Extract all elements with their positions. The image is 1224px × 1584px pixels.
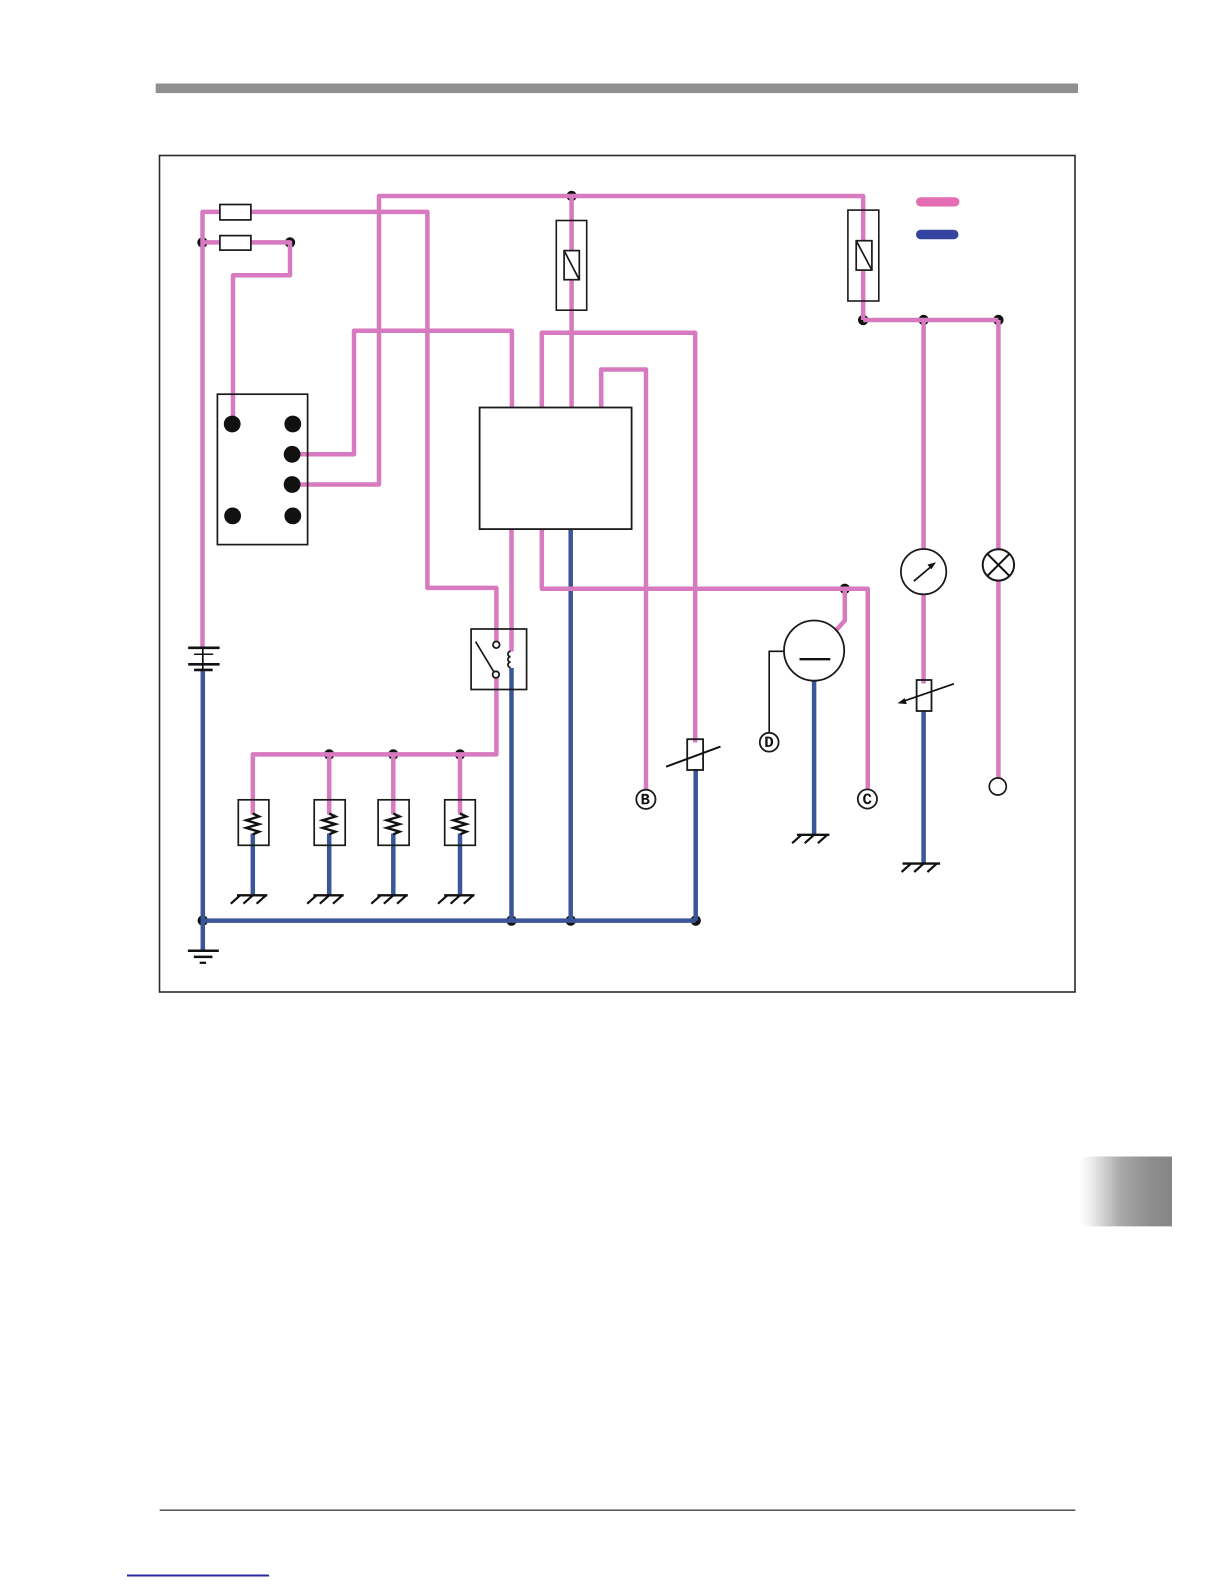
battery BT1 xyxy=(188,648,219,670)
wire tap to glow plug R2 (pink) xyxy=(327,754,332,814)
glow plug R3 box xyxy=(378,800,409,846)
node junction ground bus left xyxy=(198,915,208,925)
wire ECU pin 4 to node B (pink) xyxy=(601,370,646,790)
wire ECU pin 1 bottom to relay coil (pink) xyxy=(509,529,514,652)
relay K1 switch contact top xyxy=(493,642,500,649)
node junction lamp feed xyxy=(993,315,1003,325)
connector J1 pin 2 xyxy=(284,416,301,433)
node junction on top feed line xyxy=(566,191,576,201)
ECU control unit U1 xyxy=(480,408,632,530)
wire connector pin to ECU pin 1 (pink) xyxy=(292,331,512,455)
node junction glow plug rail R4 xyxy=(455,749,465,759)
diagram frame xyxy=(160,156,1076,993)
wire glow plug R1 to ground (blue) xyxy=(251,834,256,896)
relay K1 switch contact bottom xyxy=(493,671,500,678)
connector J1 xyxy=(217,394,307,544)
glow plug R2 box xyxy=(314,800,345,846)
wire gauge G1 to rheostat R5 (pink) xyxy=(921,594,926,683)
sensor R6 xyxy=(666,739,720,770)
ground chassis R2 xyxy=(307,895,344,903)
ground chassis R1 xyxy=(231,895,267,903)
glow plug R2 element xyxy=(323,814,336,835)
wire to lamp L1 (pink) xyxy=(996,320,1001,550)
node junction ground bus ECU xyxy=(566,915,576,925)
fuse F4 body xyxy=(848,210,879,301)
wire top line junction through fuse F3 to ECU (pink) xyxy=(569,196,574,408)
wire tap to glow plug R3 (pink) xyxy=(391,754,396,814)
fuse F1 xyxy=(220,205,251,220)
fuse F3 element xyxy=(564,251,579,280)
wire to gauge G1 (pink) xyxy=(921,320,926,549)
node D xyxy=(760,733,779,752)
glow plug R1 element xyxy=(246,814,259,835)
wire fuse F4 output rail (pink) xyxy=(863,318,998,323)
footer link underline xyxy=(127,1575,269,1577)
node junction on battery feed at fuse F2 xyxy=(197,237,207,247)
fuse F2 xyxy=(220,236,251,251)
motor M1 xyxy=(784,621,844,681)
gauge G1 xyxy=(901,549,946,594)
wire ECU pin to node C (pink) xyxy=(542,529,868,790)
glow plug R4 element xyxy=(453,814,466,835)
node fuse F2 output elbow xyxy=(285,237,295,247)
connector J1 pin 5 xyxy=(224,508,241,525)
wire sensor R6 to ground bus (blue) xyxy=(693,769,698,921)
wire lamp L1 to terminal (pink) xyxy=(996,580,1001,778)
node junction glow plug rail R3 xyxy=(388,749,398,759)
node junction glow plug rail R2 xyxy=(324,749,334,759)
connector J1 pin 6 xyxy=(284,508,301,525)
wire relay coil to ground bus (blue) xyxy=(509,668,514,921)
ground earth battery xyxy=(188,951,219,963)
page tab xyxy=(1078,1157,1172,1227)
wire connector pin to top feed line through fuse F4 (pink) xyxy=(292,196,863,485)
wire ECU pin 2 to sensor R6 (pink) xyxy=(542,333,695,743)
connector J1 pin 1 xyxy=(224,416,241,433)
legend blue wire sample xyxy=(916,230,959,240)
header rule bar xyxy=(156,84,1078,94)
ground chassis rheostat xyxy=(902,864,941,872)
wire relay switch to glow plug rail (pink) xyxy=(253,678,497,814)
wire ECU pin to ground bus (blue) xyxy=(568,529,573,921)
footer rule xyxy=(160,1509,1076,1511)
relay K1 switch blade xyxy=(476,642,495,673)
wire glow plug R4 to ground (blue) xyxy=(458,834,463,896)
node junction motor branch xyxy=(840,584,850,594)
glow plug R3 element xyxy=(387,814,400,835)
wire glow plug R2 to ground (blue) xyxy=(327,834,332,896)
terminal lamp xyxy=(989,778,1006,795)
wire battery positive through fuse F1 to relay switch (pink) xyxy=(203,212,497,649)
relay K1 coil xyxy=(508,651,511,667)
wire branch to motor M1 (pink) xyxy=(836,589,845,630)
legend pink wire sample xyxy=(916,197,960,206)
wire tap to glow plug R4 (pink) xyxy=(458,754,463,814)
wire rheostat R5 to ground (blue) xyxy=(921,711,926,864)
connector J1 pin 4 xyxy=(284,476,301,493)
lamp L1 xyxy=(983,549,1014,580)
connector J1 pin 3 xyxy=(284,446,301,463)
node junction ground bus relay xyxy=(506,915,516,925)
wire motor M1 to ground (blue) xyxy=(812,681,817,835)
wire motor to node D (black) xyxy=(769,651,784,733)
ground chassis R4 xyxy=(438,895,475,903)
ground chassis R3 xyxy=(371,895,408,903)
wire battery negative to ground and ground bus (blue) xyxy=(201,670,206,950)
ground chassis motor xyxy=(792,835,829,843)
fuse F4 element xyxy=(856,241,872,270)
node B xyxy=(636,790,655,809)
node fuse F4 output xyxy=(858,315,868,325)
glow plug R4 box xyxy=(445,800,476,846)
relay K1 box xyxy=(471,629,526,690)
wire glow plug R3 to ground (blue) xyxy=(391,834,396,896)
node junction gauge feed xyxy=(918,315,928,325)
rheostat R5 xyxy=(898,680,954,711)
node junction ground bus right xyxy=(691,915,701,925)
wire ground bus rail (blue) xyxy=(203,918,696,923)
fuse F3 body xyxy=(556,221,586,311)
wire fuse F2 branch to connector (pink) xyxy=(203,242,291,424)
glow plug R1 box xyxy=(238,800,269,846)
node C xyxy=(858,789,877,808)
